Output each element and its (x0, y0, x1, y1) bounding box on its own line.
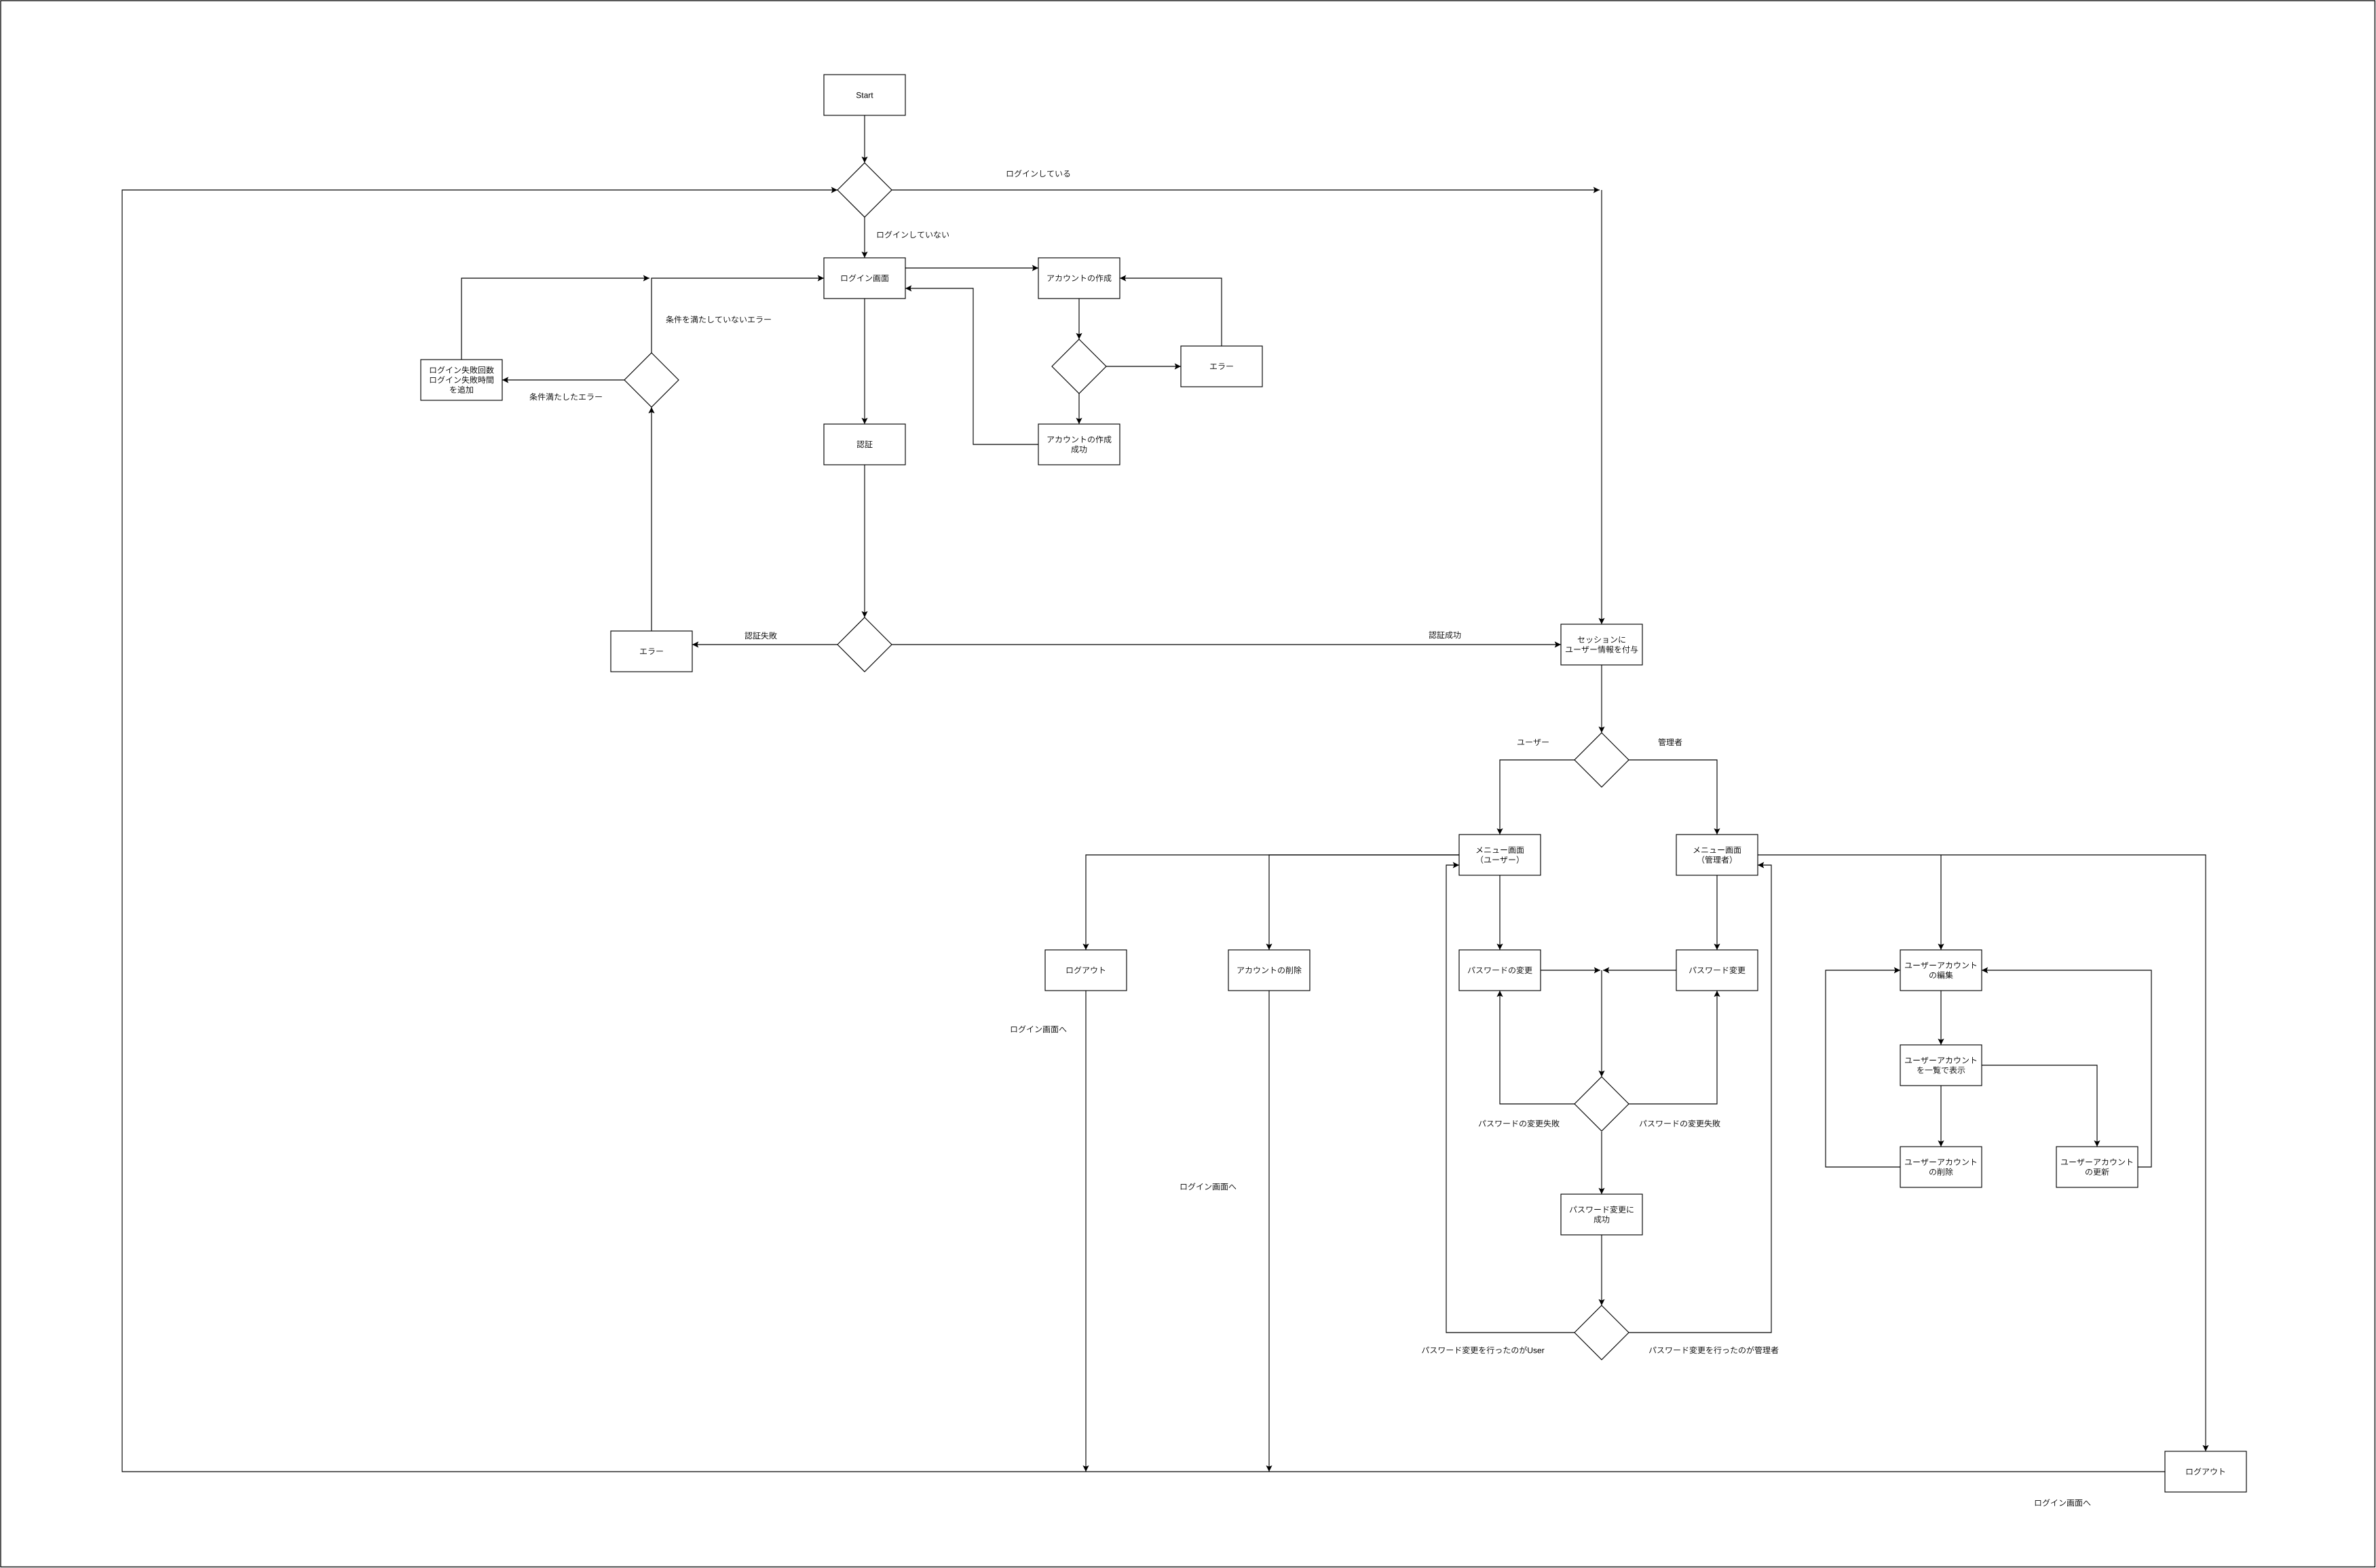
wire: edit-user-account to list-user-accounts (1938, 991, 1944, 1045)
edge label: logged-in (1007, 170, 1070, 177)
wire: password-changed to pwchange-actor (1598, 1235, 1604, 1305)
wire: junction to pwchange-result (1598, 970, 1604, 1077)
process box: edit-user-account (1900, 950, 1982, 991)
edge label: to-login-screen-2 (1181, 1183, 1237, 1190)
wire: pwchange-result to change-password-admin (failed) (1629, 991, 1720, 1104)
edge label: not-logged-in (878, 231, 949, 238)
edge label: to-login-screen-1 (1011, 1025, 1067, 1033)
wire: menu-admin to change-password-admin (1714, 875, 1720, 950)
process box: change-password-admin (1676, 950, 1758, 991)
wire: error-account to create-account (1120, 275, 1222, 346)
edge label: pw-fail-left (1479, 1120, 1560, 1127)
process box: account-created (1038, 424, 1120, 465)
wire: pwchange-actor to menu-user (changed by User) (1446, 862, 1574, 1333)
wire: session-grant to role-check (1598, 665, 1604, 733)
edge label: pw-fail-right (1640, 1120, 1720, 1127)
wire: login-screen to create-account (905, 265, 1038, 271)
process box: password-changed (1561, 1194, 1642, 1235)
edge label: to-login-screen-3 (2035, 1499, 2091, 1506)
edge label: admin (1658, 738, 1682, 746)
process box: menu-admin (1676, 835, 1758, 875)
edge label: auth-failed (744, 632, 776, 639)
wire: menu-user to logout-user (1082, 855, 1459, 950)
wire: login-fail-count to error wire (461, 275, 649, 360)
edge label: cond-not-met-error (666, 315, 770, 323)
wire: update-user-account to edit-user-account (1982, 967, 2151, 1167)
decision diamond: create-result (1052, 339, 1106, 394)
wire: pwchange-result to change-password-user (failed) (1496, 991, 1574, 1104)
process box: update-user-account (2056, 1147, 2138, 1187)
wire: delete-account to login wire (1266, 991, 1272, 1472)
wire: create-result to account-created (1076, 394, 1082, 424)
edge label: pw-by-admin (1649, 1346, 1779, 1354)
decision diamond: role-check (1574, 733, 1629, 787)
wire: account-created to login-screen (905, 285, 1038, 444)
wire: authenticate to auth-result (861, 465, 867, 617)
process box: list-user-accounts (1900, 1045, 1982, 1086)
wire: wire down to session-grant (1598, 190, 1604, 624)
wire: list-user-accounts to delete-user-account (1938, 1086, 1944, 1147)
process box: logout-user (1045, 950, 1127, 991)
wire: error-type to login-fail-count (condition met) (502, 377, 624, 383)
edge label: cond-met-error (529, 393, 601, 400)
wire: login-check to session wire (logged in) (892, 187, 1600, 193)
process box: error-account (1181, 346, 1262, 387)
wire: logout-admin to login-check (to login screen) (122, 187, 2165, 1472)
wire: delete-user-account to edit-user-account (1826, 967, 1900, 1167)
decision diamond: auth-result (837, 617, 892, 672)
decision diamond: error-type (624, 353, 679, 407)
process box: login-screen (824, 258, 905, 299)
wire: role-check to menu-user (user) (1496, 760, 1574, 835)
wire: menu-user to change-password-user (1496, 875, 1503, 950)
wire: login-screen to authenticate (861, 299, 867, 424)
wire: login-check to login-screen (not logged in) (861, 217, 867, 258)
process box: menu-user (1459, 835, 1541, 875)
process box: delete-user-account (1900, 1147, 1982, 1187)
wire: logout-user to login wire (1082, 991, 1089, 1472)
decision diamond: pwchange-actor (1574, 1305, 1629, 1360)
process box: create-account (1038, 258, 1120, 299)
edge label: auth-success (1429, 631, 1460, 638)
decision diamond: pwchange-result (1574, 1077, 1629, 1131)
process box: login-fail-count (421, 360, 502, 400)
wire: start to login-check (861, 115, 867, 163)
wire: change-password-admin junction (1603, 967, 1676, 973)
wire: menu-admin to edit-user-account (1938, 855, 1944, 950)
wire: change-password-user junction (1541, 967, 1600, 973)
wire: create-result to error-account (1106, 363, 1181, 369)
wire: create-account to create-result (1076, 299, 1082, 339)
wire: pwchange-actor to menu-admin (changed by admin) (1629, 862, 1771, 1333)
wire: error-type to login-screen (condition not met) (652, 275, 824, 353)
wire: auth-result to session-grant (auth success) (892, 641, 1561, 647)
wire: auth-result to error-auth (auth failed) (692, 641, 837, 647)
wire: list-user-accounts to update-user-account (1982, 1065, 2100, 1147)
process box: logout-admin (2165, 1451, 2246, 1492)
process box: Start (824, 75, 905, 115)
wire: role-check to menu-admin (admin) (1629, 760, 1720, 835)
process box: change-password-user (1459, 950, 1541, 991)
process box: error-auth (611, 631, 692, 672)
process box: delete-account (1228, 950, 1310, 991)
process box: authenticate (824, 424, 905, 465)
edge label: user (1517, 739, 1549, 746)
edge label: pw-by-user (1422, 1346, 1544, 1354)
wire: error-auth to error-type (648, 407, 654, 631)
wire: menu-user to delete-account (1266, 855, 1459, 950)
decision diamond: login-check (837, 163, 892, 217)
process box: session-grant (1561, 624, 1642, 665)
wire: menu-admin to logout-admin (1758, 855, 2209, 1451)
wire: pwchange-result to password-changed (1598, 1132, 1604, 1194)
